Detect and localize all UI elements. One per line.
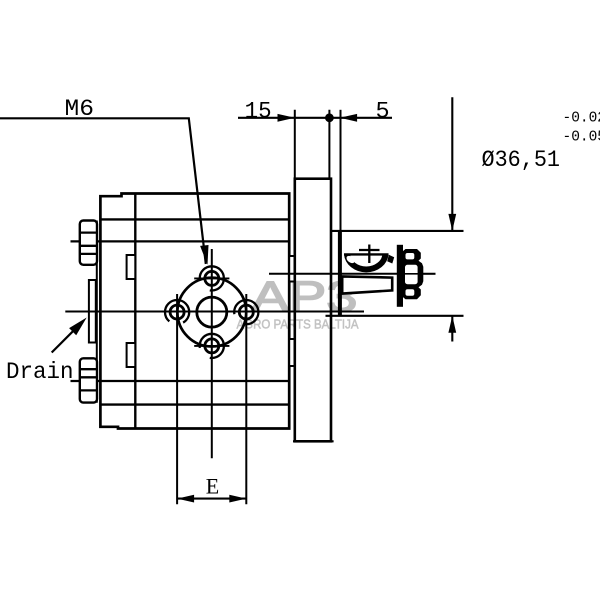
arrow 5 left-pointing (340, 114, 357, 122)
drain leader arrowhead (69, 318, 87, 336)
bolt hole left (165, 300, 189, 324)
dimension line 15 and 5 (238, 117, 392, 119)
right bolt vertical crosshair / E extension (245, 294, 247, 504)
top hex bolt (80, 221, 97, 265)
M6 leader line (0, 118, 206, 264)
shaft bore (197, 297, 227, 327)
E arrow right-pointing (229, 495, 246, 503)
dot at 15/5 junction (325, 113, 334, 122)
left bolt vertical crosshair / E extension (176, 294, 178, 504)
left slot upper (127, 255, 136, 279)
bottom bolt centerline through body (71, 380, 290, 382)
E arrow left-pointing (177, 495, 194, 503)
svg-text:5: 5 (376, 99, 390, 126)
banjo right wedge (387, 255, 394, 264)
extension line at dot (328, 110, 330, 179)
rear plate line (96, 221, 98, 403)
mounting flange plate (295, 179, 331, 442)
body section line lower (100, 403, 289, 405)
main horizontal centerline (65, 311, 364, 313)
banjo bowl inner arc (349, 254, 384, 267)
nut facet bottom (406, 289, 415, 295)
E dimension line (177, 498, 246, 500)
pitch circle (177, 278, 246, 347)
top bolt centerline through body (71, 240, 290, 242)
right slot lower (289, 339, 295, 366)
port centerline over nut (404, 273, 436, 275)
svg-text:E: E (206, 473, 219, 498)
drain boss (89, 280, 96, 343)
arrow dia bottom up-pointing (448, 316, 456, 333)
bolt hole top (M6) (194, 266, 229, 290)
arrow dia top down-pointing (448, 214, 456, 231)
dia 36.51 bottom line (326, 315, 464, 317)
flange bottom overshoot (293, 440, 334, 442)
svg-text:M6: M6 (65, 96, 95, 123)
vertical dimension line (451, 97, 453, 231)
bottom hex bolt (80, 358, 97, 402)
nut body (403, 249, 424, 299)
nut facet top (406, 253, 415, 259)
svg-text:15: 15 (245, 99, 272, 126)
svg-text:-0.02: -0.02 (563, 110, 600, 126)
banjo bowl white notch (345, 254, 356, 264)
fitting shank (342, 276, 392, 293)
drain leader line (52, 324, 80, 352)
right slot upper (289, 256, 295, 282)
nut facet middle (405, 265, 418, 284)
M6 leader arrowhead (200, 245, 208, 265)
banjo bowl top line (344, 253, 389, 255)
banjo bowl ring (344, 254, 389, 272)
dia 36.51 top line (331, 230, 464, 232)
svg-text:Drain: Drain (6, 359, 74, 386)
svg-text:Ø36,51: Ø36,51 (482, 147, 561, 174)
nut washer bar (397, 245, 403, 307)
bolt hole bottom (194, 334, 229, 358)
extension line flange face (294, 110, 296, 179)
body section line upper (100, 218, 289, 220)
rear cover vertical line (134, 194, 136, 429)
port centerline (269, 273, 436, 275)
pump body outline (100, 194, 289, 429)
main vertical centerline (211, 249, 213, 458)
svg-text:-0.05: -0.05 (563, 130, 600, 146)
bolt hole right (234, 300, 258, 324)
arrow 15 right-pointing (278, 114, 295, 122)
extension line port face (340, 110, 342, 231)
banjo cross (359, 249, 380, 251)
left slot lower (127, 343, 136, 367)
